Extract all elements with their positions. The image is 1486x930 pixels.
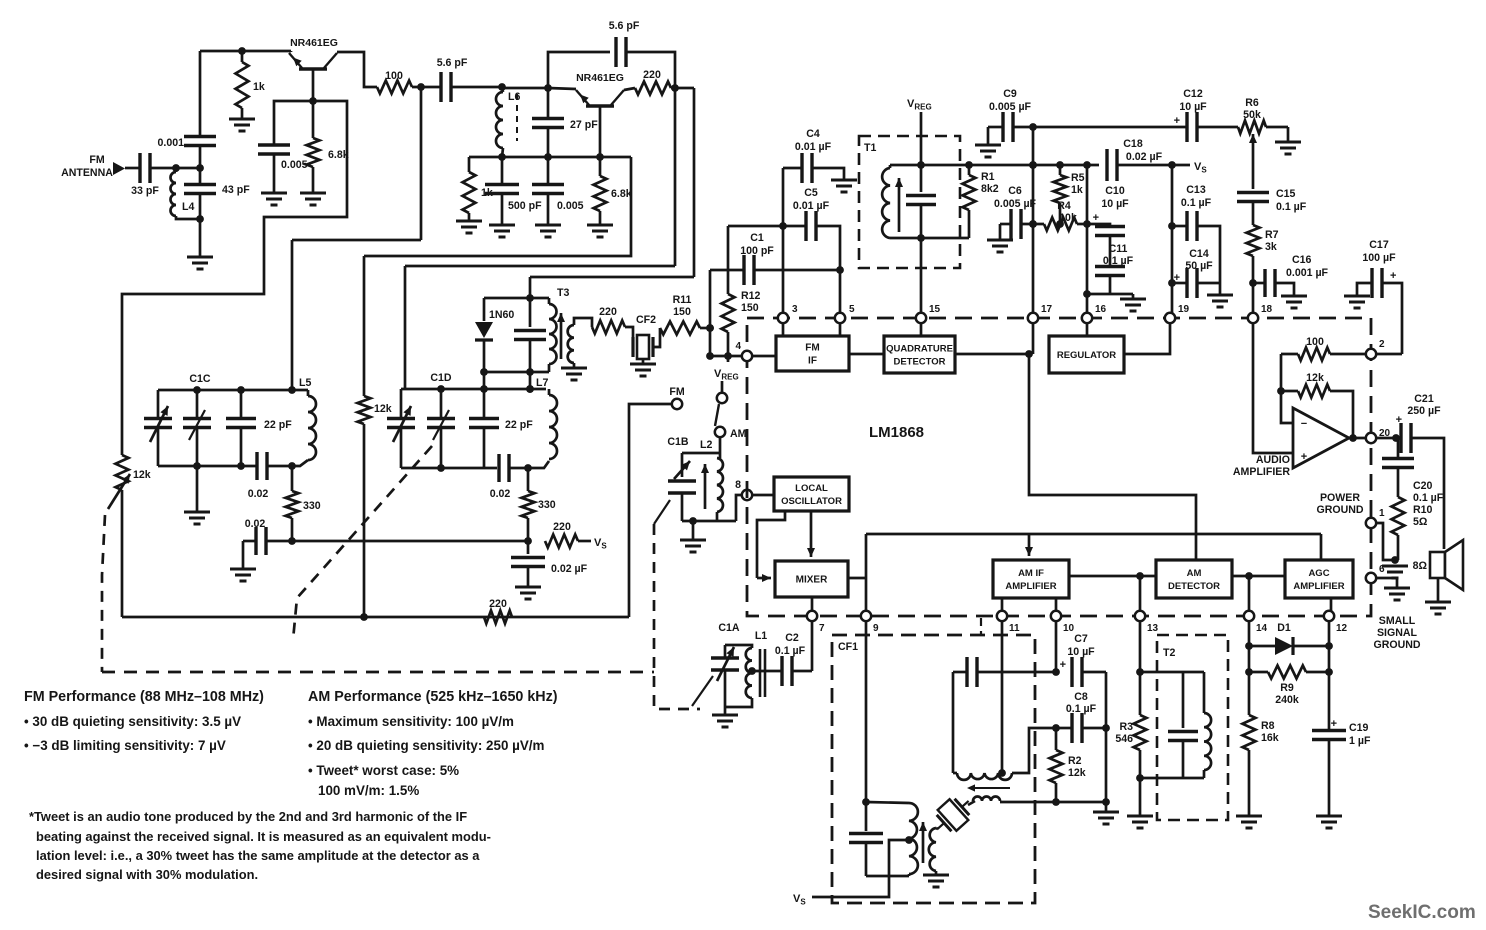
capacitor T1 internal (906, 196, 936, 205)
wire (547, 88, 550, 118)
switch contact AM (715, 427, 725, 437)
node C16 tap (1249, 279, 1257, 287)
node C11 bottom (1083, 290, 1091, 298)
resistor 100 (feedback) (1298, 348, 1330, 361)
wire to tank rail (529, 372, 532, 389)
wire line2 left down (291, 240, 294, 390)
wire (292, 460, 308, 466)
svg-text:+: + (1060, 659, 1066, 671)
wire Q2 base stem (599, 106, 602, 157)
node rail/R1k (238, 47, 246, 55)
svg-text:AUDIO: AUDIO (1256, 454, 1290, 466)
svg-text:8k2: 8k2 (981, 183, 999, 195)
node 27pF bottom (544, 153, 552, 161)
resistor 12k (feedback) (1298, 385, 1330, 398)
resistor R3 546 (1134, 715, 1147, 750)
wire T2 bottom rail (1140, 777, 1204, 780)
wire C1A bottom (725, 698, 752, 707)
ceramic filter CF1 dashed box (832, 635, 1035, 903)
svg-text:AMPLIFIER: AMPLIFIER (1293, 581, 1344, 592)
svg-text:16k: 16k (1261, 732, 1279, 744)
wire (196, 428, 199, 467)
svg-text:• 30 dB quieting sensitivity:: • 30 dB quieting sensitivity: 3.5 µV (24, 714, 241, 729)
arrow into AM IF (1028, 534, 1031, 556)
resistor 6.8k (Q1) (307, 138, 320, 167)
svg-text:desired signal with 30% modula: desired signal with 30% modulation. (36, 867, 258, 882)
wire mixer out bus (866, 533, 1321, 536)
svg-text:8: 8 (735, 479, 741, 491)
svg-text:5.6 pF: 5.6 pF (437, 57, 468, 69)
wire to ground (199, 219, 202, 257)
wire zobel (1396, 438, 1398, 457)
svg-text:12k: 12k (1306, 372, 1324, 384)
wire (547, 157, 550, 184)
node quad out (1025, 350, 1033, 358)
wire (483, 340, 486, 389)
svg-text:0.01 µF: 0.01 µF (795, 141, 832, 153)
svg-text:100 µF: 100 µF (1362, 252, 1396, 264)
capacitor 0.005 (Q1) (258, 145, 290, 154)
wire to pin 15 (920, 238, 923, 313)
svg-text:15: 15 (929, 304, 941, 315)
wire (724, 707, 727, 715)
wire pin18 to plus input (1253, 323, 1293, 453)
svg-text:FM: FM (669, 386, 684, 398)
svg-text:10k: 10k (1059, 212, 1077, 224)
svg-text:0.001 µF: 0.001 µF (1286, 267, 1329, 279)
svg-text:REGULATOR: REGULATOR (1057, 350, 1116, 361)
capacitor C18 0.02 uF (series) (1107, 149, 1117, 181)
wire (529, 340, 532, 373)
ground (1281, 296, 1307, 308)
ceramic resonator (928, 791, 978, 840)
wire (400, 389, 403, 417)
svg-text:SIGNAL: SIGNAL (1377, 627, 1418, 639)
svg-text:R1: R1 (981, 171, 995, 183)
wire down to line2 (420, 87, 423, 240)
pot wiper arrow (108, 474, 130, 509)
svg-text:FM: FM (89, 154, 104, 166)
switch pole Vreg (717, 393, 727, 403)
ground (630, 364, 656, 376)
wire (400, 428, 403, 469)
wire (599, 211, 602, 225)
resistor R8 16k (1243, 715, 1256, 750)
wire trimmer1 leg (157, 390, 160, 417)
wire (290, 51, 293, 52)
capacitor C17 100 uF (1372, 268, 1382, 298)
node R5/R4 (1056, 220, 1064, 228)
svg-text:L2: L2 (700, 439, 712, 451)
wire AGC to pin12 (1330, 598, 1333, 612)
svg-text:5: 5 (849, 304, 855, 315)
wire T1 top rail (890, 164, 969, 167)
svg-text:0.02 µF: 0.02 µF (1126, 151, 1163, 163)
wire (440, 389, 443, 417)
node tank out (288, 462, 296, 470)
svg-text:C19: C19 (1349, 722, 1369, 734)
dashed gang link C1D (293, 446, 432, 640)
svg-text:L1: L1 (755, 630, 767, 642)
capacitor C15 0.1 uF (1237, 193, 1269, 202)
wire (1328, 740, 1331, 817)
node tank/T3 (526, 385, 534, 393)
inductor AM osc winding 1 (957, 773, 1012, 780)
svg-text:+: + (1174, 115, 1180, 127)
wire (440, 428, 443, 469)
wire (866, 875, 909, 878)
svg-text:beating against the received s: beating against the received signal. It … (36, 829, 491, 844)
variable capacitor C1C section a (144, 419, 172, 428)
svg-text:DETECTOR: DETECTOR (893, 357, 945, 368)
slash C1B gang (654, 500, 670, 524)
inductor L1 (746, 648, 752, 698)
svg-text:546: 546 (1115, 733, 1133, 745)
wire T1 bottom rail (890, 237, 969, 240)
svg-text:500 pF: 500 pF (508, 200, 542, 212)
ground (1425, 602, 1451, 614)
svg-text:R3: R3 (1119, 721, 1133, 733)
svg-text:0.005: 0.005 (557, 200, 584, 212)
svg-text:12k: 12k (133, 469, 151, 481)
node Q1 out (417, 83, 425, 91)
node power ground (1391, 556, 1399, 564)
inductor T3 secondary (568, 325, 574, 363)
wire (889, 165, 892, 168)
block AGC amplifier (1285, 560, 1353, 598)
svg-text:• −3 dB limiting sensitivity:: • −3 dB limiting sensitivity: 7 µV (24, 738, 226, 753)
svg-text:C1C: C1C (189, 373, 211, 385)
wire pin17 to quad line (1032, 323, 1035, 354)
svg-text:−: − (1301, 418, 1307, 430)
R6 wiper arrow (1252, 134, 1255, 162)
capacitor C19 1 uF (1312, 731, 1346, 740)
capacitor C6 0.005 uF (1000, 223, 1011, 226)
wire (1117, 164, 1190, 167)
wire pin9 down (865, 621, 868, 802)
capacitor C8 0.1 uF (1072, 713, 1082, 743)
inductor L2 (717, 458, 723, 512)
ground (712, 715, 738, 727)
wire (977, 671, 1056, 674)
wire feedback loop Q1 (122, 101, 347, 455)
svg-text:100: 100 (1306, 336, 1324, 348)
svg-text:• Maximum sensitivity: 100 µV/: • Maximum sensitivity: 100 µV/m (308, 714, 514, 729)
wire to speaker (1411, 438, 1444, 549)
ground (561, 368, 587, 380)
wire pin20 out (1376, 437, 1401, 440)
wire to Vs branch (292, 540, 528, 543)
wire (199, 146, 202, 169)
wire (935, 871, 938, 875)
wire C1A top (725, 645, 752, 648)
op-amp U1 audio amplifier (1293, 408, 1349, 468)
wire (1357, 283, 1372, 296)
svg-text:C6: C6 (1008, 185, 1022, 197)
resistor 330 (C1D) (522, 491, 535, 518)
transistor Q2 NR461EG (586, 104, 614, 108)
wire 5.6pF loop right / down to line4 (627, 52, 675, 266)
ground (987, 240, 1013, 252)
resistor R9 240k (1268, 666, 1306, 679)
capacitor C5 0.01 uF (806, 211, 816, 241)
pin 12 (1324, 611, 1334, 621)
svg-text:L7: L7 (536, 377, 548, 389)
node L6 bottom (498, 153, 506, 161)
svg-text:43 pF: 43 pF (222, 184, 250, 196)
svg-text:0.01 µF: 0.01 µF (793, 200, 830, 212)
capacitor 33 pF (140, 153, 150, 183)
wire (1249, 671, 1268, 674)
capacitor 5.6 pF (interstage) (441, 72, 451, 102)
svg-text:0.1 µF: 0.1 µF (775, 645, 806, 657)
node osc cap top (862, 798, 870, 806)
svg-text:R12: R12 (741, 290, 761, 302)
svg-text:0.005: 0.005 (281, 159, 308, 171)
wire (527, 518, 530, 541)
wire (273, 155, 276, 193)
wire quad out (955, 353, 1029, 356)
wire (452, 86, 502, 89)
wire (1109, 236, 1112, 267)
wire (719, 438, 722, 458)
pin 20 (1366, 433, 1376, 443)
svg-text:250 µF: 250 µF (1407, 405, 1441, 417)
wire (1182, 741, 1185, 779)
arrow T3 tuning (560, 313, 563, 359)
dashed jog (980, 618, 982, 635)
wire (312, 167, 315, 193)
wire CF2 to R11 (653, 328, 660, 347)
wire line3 emitter feedback (364, 157, 631, 256)
ground power (1382, 566, 1408, 578)
svg-text:0.001: 0.001 (157, 137, 184, 149)
svg-text:220: 220 (599, 306, 617, 318)
resistor 220 (bottom) (484, 611, 512, 624)
wire (509, 467, 528, 470)
resistor R5 1k (1054, 175, 1067, 203)
resistor R7 3k (1247, 225, 1260, 256)
capacitor 500 pF (485, 185, 519, 194)
resistor R10 5 ohm (1392, 497, 1405, 535)
svg-text:R10: R10 (1413, 504, 1433, 516)
ground (187, 257, 213, 269)
wire (1275, 283, 1294, 296)
wire 5.6pF loop left (548, 52, 610, 88)
wire trimmer2 leg (196, 390, 199, 417)
ground (923, 875, 949, 887)
svg-text:SMALL: SMALL (1379, 615, 1416, 627)
resistor 12k (line3) (358, 396, 371, 424)
wire (1248, 750, 1251, 816)
wire mixer output (848, 577, 866, 580)
svg-text:C21: C21 (1414, 393, 1434, 405)
capacitor C14 50 uF (1172, 282, 1186, 285)
wire (1021, 223, 1044, 226)
pin 9 (861, 611, 871, 621)
svg-text:12: 12 (1336, 623, 1348, 634)
svg-text:+: + (1390, 270, 1396, 282)
wire L1 to C2 (752, 670, 782, 673)
potentiometer 12k (116, 455, 129, 490)
svg-text:• Tweet* worst case: 5%: • Tweet* worst case: 5% (308, 763, 459, 778)
svg-text:8Ω: 8Ω (1413, 560, 1428, 572)
ground (1207, 295, 1233, 307)
wire regulator to pin19 (1124, 323, 1170, 354)
pin 4 (742, 351, 752, 361)
variable capacitor C1B (668, 481, 696, 493)
node R1 top (965, 161, 973, 169)
node L2 ground (689, 517, 697, 525)
svg-text:*Tweet is an audio tone produc: *Tweet is an audio tone produced by the … (29, 809, 467, 824)
wire pin5 column (839, 270, 842, 313)
wire (671, 87, 694, 90)
svg-text:0.1 µF: 0.1 µF (1413, 492, 1444, 504)
svg-text:5Ω: 5Ω (1413, 516, 1428, 528)
svg-text:9: 9 (873, 623, 879, 634)
svg-text:C18: C18 (1123, 138, 1143, 150)
svg-text:7: 7 (819, 623, 825, 634)
svg-text:6.8k: 6.8k (328, 149, 349, 161)
inductor T2 winding (1204, 713, 1211, 770)
svg-text:R7: R7 (1265, 229, 1279, 241)
wire (681, 493, 684, 521)
wire (267, 465, 292, 468)
svg-text:3: 3 (792, 304, 798, 315)
svg-text:22 pF: 22 pF (264, 419, 292, 431)
wire pin15 to quad (920, 323, 923, 336)
wire LO to mixer (757, 511, 785, 578)
wire (1219, 283, 1222, 295)
wire pin13 column (1139, 621, 1142, 715)
resistor 220 (to CF2) (592, 321, 625, 334)
node Q1 base (309, 97, 317, 105)
svg-text:1: 1 (1379, 508, 1385, 519)
svg-text:CF1: CF1 (838, 641, 858, 653)
node Vs branch (524, 537, 532, 545)
svg-text:NR461EG: NR461EG (290, 37, 338, 49)
wire (241, 51, 244, 62)
svg-text:C14: C14 (1189, 248, 1209, 260)
wire C33 to node (151, 167, 200, 170)
wire AMIF pin11 stub (1001, 598, 1004, 611)
variable capacitor C1D section b (427, 419, 455, 428)
node T3 bottom (526, 368, 534, 376)
wire (642, 359, 645, 364)
wire wiper down (1252, 162, 1255, 189)
svg-text:10 µF: 10 µF (1179, 101, 1207, 113)
svg-text:220: 220 (553, 521, 571, 533)
node C1D out (524, 464, 532, 472)
wire (1013, 126, 1033, 129)
pin 5 (835, 313, 845, 323)
wire (599, 157, 602, 176)
wire to top rail (199, 51, 202, 137)
core L1 (760, 649, 765, 697)
pin 17 (1028, 313, 1038, 323)
svg-text:0.1 µF: 0.1 µF (1276, 201, 1307, 213)
svg-text:R9: R9 (1280, 682, 1294, 694)
wire C4 right (812, 168, 844, 180)
svg-text:0.005 µF: 0.005 µF (989, 101, 1032, 113)
svg-text:C4: C4 (806, 128, 820, 140)
svg-text:22 pF: 22 pF (505, 419, 533, 431)
svg-text:1k: 1k (481, 187, 493, 199)
wire (242, 541, 245, 569)
wire (1197, 126, 1238, 129)
svg-text:C16: C16 (1292, 254, 1312, 266)
svg-text:C12: C12 (1183, 88, 1203, 100)
svg-text:50 µF: 50 µF (1185, 260, 1213, 272)
inductor L5 (308, 396, 316, 460)
wire winding to C8 (1012, 728, 1056, 773)
svg-text:4: 4 (735, 341, 741, 352)
transformer T1 dashed box (859, 136, 960, 268)
ground (230, 569, 256, 581)
svg-text:LM1868: LM1868 (869, 424, 924, 441)
wire fb node to minus (1281, 354, 1293, 423)
wire (1105, 802, 1108, 812)
wire C17 to pin2 line (1382, 283, 1402, 354)
antenna arrow (113, 162, 125, 175)
wire (241, 108, 244, 119)
svg-text:AMPLIFIER: AMPLIFIER (1005, 581, 1056, 592)
svg-text:0.1 µF: 0.1 µF (1066, 703, 1097, 715)
wire to FM contact (629, 404, 671, 617)
wire (908, 874, 911, 876)
wire (1293, 645, 1329, 648)
svg-text:1k: 1k (1071, 184, 1083, 196)
capacitor CF1 internal (967, 657, 977, 687)
wire T3 top feed (530, 276, 694, 279)
svg-text:C15: C15 (1276, 188, 1296, 200)
node 330 bottom (288, 537, 296, 545)
wire pin3 column (782, 226, 785, 313)
ceramic filter CF2 (633, 335, 653, 359)
wire (501, 194, 504, 226)
wire C4 left (783, 167, 802, 170)
wire (529, 298, 532, 327)
wire (548, 298, 551, 304)
wire (1397, 468, 1400, 498)
wire (240, 428, 243, 467)
wire (724, 645, 727, 658)
inductor L7 (549, 395, 557, 459)
diode 1N60 (475, 322, 493, 338)
wire (548, 389, 551, 395)
inductor AM osc primary (909, 803, 918, 874)
inductor L6 (496, 92, 503, 148)
svg-text:220: 220 (643, 69, 661, 81)
wire C1C top rail (158, 389, 308, 392)
resistor R12 150 (722, 294, 735, 332)
wire (501, 157, 504, 184)
svg-text:150: 150 (741, 302, 759, 314)
wire diode leg (483, 298, 486, 321)
wire (312, 101, 315, 138)
wire (1087, 293, 1133, 296)
svg-text:150: 150 (673, 306, 691, 318)
wire (483, 428, 486, 469)
svg-text:C1D: C1D (430, 372, 452, 384)
svg-text:D1: D1 (1277, 622, 1291, 634)
svg-text:C8: C8 (1074, 691, 1088, 703)
svg-text:R11: R11 (673, 294, 692, 306)
node L4/C43 bottom (196, 215, 204, 223)
svg-text:100: 100 (385, 70, 403, 82)
svg-text:1k: 1k (253, 81, 265, 93)
wire (1197, 226, 1220, 283)
